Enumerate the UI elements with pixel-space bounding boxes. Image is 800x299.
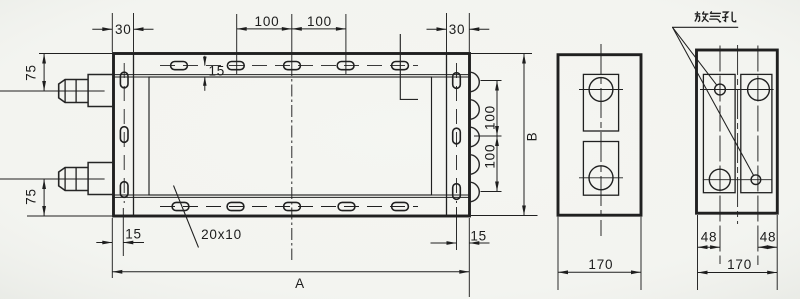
right slot column centerline (456, 63, 458, 203)
svg-text:48: 48 (760, 229, 777, 244)
vent side view vertical centerline (737, 45, 739, 224)
dim 100 top line (237, 28, 346, 30)
dim 100 right line (496, 81, 498, 192)
front view flange inner line top a (114, 74, 470, 76)
lower nozzle hex plug body (59, 168, 88, 191)
upper port centerline right view (700, 89, 774, 91)
svg-text:B: B (524, 132, 539, 142)
vent side view body (697, 50, 778, 213)
lower nozzle facet line 2 (75, 168, 77, 191)
svg-text:75: 75 (23, 64, 38, 81)
svg-text:30: 30 (115, 22, 132, 37)
lower port centerline right view (703, 179, 773, 181)
top flange slot 4 20x10 (337, 62, 354, 70)
dim 15 bottom-right arrow right (469, 242, 489, 244)
front view flange inner line left (133, 54, 135, 217)
label 20x10 leader (174, 186, 199, 248)
vent hole lower small circle (751, 175, 761, 185)
dim 30 right arrow right (469, 28, 489, 30)
lower nozzle centerline (0, 178, 105, 180)
right flange slot 3 20x10 (453, 184, 461, 200)
dim 30 right ext line a (446, 13, 448, 77)
svg-text:20x10: 20x10 (201, 227, 242, 242)
lower nozzle facet line 1 (64, 168, 66, 191)
svg-text:30: 30 (449, 22, 466, 37)
dim 15 slot offset arrow up (204, 77, 206, 91)
vent side view pad right (741, 74, 772, 192)
top slot row centerline (160, 65, 418, 67)
dim A ext line right (468, 218, 470, 297)
dim 170 right line (698, 272, 778, 274)
dim A ext line left (111, 218, 113, 278)
upper nozzle boss plate (88, 75, 113, 107)
vent leader to lower hole (673, 27, 754, 175)
svg-text:15: 15 (208, 64, 225, 79)
right slot column ext line (456, 207, 458, 250)
vent hole column centerline right (757, 46, 759, 266)
upper nozzle centerline (0, 90, 105, 92)
label fang-qi-kong (vent hole) char 1 (695, 11, 709, 21)
svg-text:15: 15 (470, 228, 487, 243)
vent side view pad left (703, 74, 735, 192)
dim 30 right arrow left (427, 28, 447, 30)
upper nozzle facet line 1 (64, 80, 66, 103)
dim 100 right ext line b (474, 135, 502, 137)
bottom flange slot 3 20x10 (284, 202, 301, 210)
left flange slot 3 20x10 (120, 182, 128, 198)
lower port circle right view (709, 169, 730, 190)
dim 30 left arrow right (134, 28, 154, 30)
dim 15 bottom-left arrow left (96, 242, 112, 244)
bottom slot row centerline (160, 206, 418, 208)
dim 100 top ext line b (345, 14, 347, 74)
dim 15 bottom-left arrow right (123, 242, 144, 244)
svg-text:170: 170 (588, 257, 613, 272)
top flange slot 3 20x10 (284, 62, 301, 70)
vent hole column centerline left (719, 46, 721, 265)
top flange slot 2 20x10 (227, 62, 244, 70)
bottom flange slot 2 20x10 (227, 202, 244, 210)
bottom flange slot 5 20x10 (392, 202, 409, 210)
dim 30 left ext line b (133, 13, 135, 52)
svg-text:100: 100 (483, 105, 498, 130)
side view vertical centerline (600, 44, 602, 236)
side view lower port circle (589, 166, 613, 190)
right flange slot 2 20x10 (453, 128, 461, 144)
lower nozzle boss plate (88, 163, 113, 195)
svg-text:75: 75 (23, 188, 38, 205)
front view flange inner line bottom a (114, 194, 470, 196)
dim 75 top ext line (39, 53, 113, 55)
vent label underline (672, 26, 738, 28)
front view outer frame plate (114, 54, 470, 217)
dim 30 left ext line a (111, 13, 113, 52)
dim 15 slot offset arrow down (204, 56, 206, 66)
dim 48 right line (758, 246, 777, 248)
front view flange inner line top b (114, 76, 470, 78)
svg-text:100: 100 (483, 144, 498, 169)
dim B line (523, 54, 525, 216)
side view upper port circle (589, 78, 613, 102)
left slot column centerline (123, 63, 125, 203)
dim 48 left line (698, 246, 721, 248)
svg-text:100: 100 (307, 14, 332, 29)
dim 30 right ext line b (468, 13, 470, 52)
upper nozzle hex plug body (59, 80, 88, 103)
side view upper port pad (583, 74, 618, 131)
coil bend scallops on right edge (470, 72, 480, 202)
svg-text:48: 48 (701, 229, 718, 244)
svg-text:15: 15 (125, 227, 142, 242)
svg-text:A: A (295, 276, 305, 291)
right flange slot 1 20x10 (453, 73, 461, 89)
dim 30 left arrow left (92, 28, 112, 30)
side view upper port centerline (579, 89, 623, 91)
top flange slot 1 20x10 (171, 62, 188, 70)
dim 75 bottom ext line (27, 215, 112, 217)
side view lower port centerline (579, 177, 623, 179)
partial section mark (400, 34, 418, 99)
upper port circle right view (748, 79, 770, 101)
label fang-qi-kong (vent hole) char 2 (709, 11, 721, 22)
front view inner opening (149, 77, 432, 195)
dim 75 bottom line (43, 179, 45, 216)
dim 75 top line (43, 54, 45, 92)
dim 170 middle ext line right (640, 217, 642, 290)
upper nozzle facet line 2 (75, 80, 77, 103)
dim 100 right ext line a (481, 80, 502, 82)
bottom flange slot 4 20x10 (338, 202, 355, 210)
dim 170 middle ext line left (557, 217, 559, 290)
dim 170 right ext line left (697, 215, 699, 290)
side view body (558, 55, 641, 216)
dim 170 middle line (558, 271, 641, 273)
vent leader to upper hole (673, 27, 717, 85)
dim B bottom ext line (471, 215, 538, 217)
svg-text:170: 170 (727, 257, 752, 272)
side view lower port pad (583, 142, 618, 196)
dim 15 bottom-left ext line (122, 208, 124, 256)
label fang-qi-kong (vent hole) char 3 (722, 12, 736, 22)
vent hole upper small circle (715, 84, 726, 95)
front view flange inner line right (446, 54, 448, 217)
front view vertical centerline (291, 64, 293, 260)
dim 100 top ext line a (236, 14, 238, 74)
front view flange inner line bottom b (114, 196, 470, 198)
dim 170 right ext line right (776, 215, 778, 290)
dim 100 right ext line c (481, 191, 502, 193)
dim A line (112, 271, 469, 273)
left flange slot 1 20x10 (120, 72, 128, 88)
dim B top ext line (471, 53, 532, 55)
top flange slot 5 20x10 (392, 62, 409, 70)
bottom flange slot 1 20x10 (172, 202, 189, 210)
left flange slot 2 20x10 (120, 127, 128, 143)
svg-text:100: 100 (255, 14, 280, 29)
front view vertical centerline ext (291, 14, 293, 64)
dim 15 bottom-right arrow left (431, 242, 457, 244)
